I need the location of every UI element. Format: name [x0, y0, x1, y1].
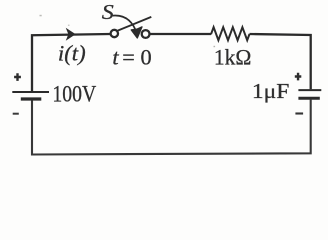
- battery bottom plate (short thick, -): [21, 97, 42, 100]
- current arrow for i(t) on top wire: [67, 29, 75, 40]
- wire: top-left segment from switch to corner, left wire down to battery: [32, 34, 110, 91]
- svg-text:= 0: = 0: [122, 45, 151, 70]
- svg-text:1kΩ: 1kΩ: [214, 45, 252, 70]
- capacitor plus sign: [295, 73, 302, 81]
- faint scan speck above i(t): [68, 25, 70, 26]
- svg-text:t: t: [112, 45, 119, 70]
- switch S right contact circle: [142, 30, 150, 38]
- faint scan speck top left: [40, 15, 42, 16]
- faint scan speck near resistor label: [214, 46, 216, 47]
- capacitor bottom plate (thick): [298, 97, 319, 100]
- wire: battery bottom to bottom-left corner, bottom wire, right wire up to capacitor bottom plate: [32, 100, 311, 155]
- wire: between switch right contact and resistor left lead: [150, 33, 211, 35]
- battery plus sign: [14, 73, 21, 81]
- capacitor top plate: [298, 89, 321, 91]
- battery top plate (long, +): [12, 91, 49, 93]
- switch S left contact circle: [111, 30, 118, 37]
- capacitor minus sign: [295, 112, 303, 114]
- svg-text:100V: 100V: [52, 82, 96, 108]
- svg-text:S: S: [102, 0, 115, 24]
- svg-text:i(t): i(t): [58, 40, 86, 65]
- switch closing motion arc: [113, 15, 136, 29]
- battery minus sign: [13, 113, 19, 115]
- wire: resistor right lead to top-right corner, down to capacitor top plate: [250, 34, 311, 89]
- switch blade open arm: [118, 17, 152, 31]
- resistor 1k zigzag: [211, 27, 250, 40]
- switch arc arrowhead pointing down to contact: [131, 27, 142, 38]
- svg-text:1μF: 1μF: [252, 79, 290, 103]
